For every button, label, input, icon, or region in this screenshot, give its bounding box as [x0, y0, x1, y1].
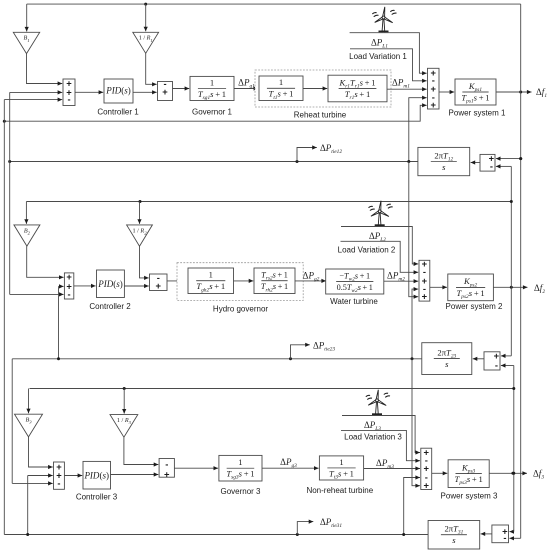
svg-text:Non-reheat turbine: Non-reheat turbine: [306, 486, 373, 495]
svg-text:Controller 3: Controller 3: [76, 493, 118, 502]
svg-text:Power system 2: Power system 2: [446, 302, 503, 311]
svg-text:-: -: [68, 288, 71, 299]
svg-text:PID(s): PID(s): [83, 470, 109, 480]
svg-text:+: +: [424, 480, 430, 491]
svg-text:-: -: [490, 160, 493, 171]
svg-text:1: 1: [238, 457, 242, 467]
svg-text:+: +: [164, 468, 170, 479]
svg-text:Power system 3: Power system 3: [441, 491, 498, 500]
svg-text:-: -: [495, 359, 498, 370]
svg-text:+: +: [431, 99, 437, 110]
svg-text:-: -: [57, 477, 60, 488]
svg-text:Controller 2: Controller 2: [89, 302, 131, 311]
svg-text:+: +: [422, 291, 428, 302]
svg-text:Reheat turbine: Reheat turbine: [294, 111, 347, 120]
svg-text:1: 1: [279, 77, 283, 87]
svg-text:Governor 1: Governor 1: [192, 107, 233, 116]
svg-text:1: 1: [210, 77, 214, 87]
svg-text:Governor 3: Governor 3: [220, 487, 261, 496]
svg-text:PID(s): PID(s): [97, 279, 123, 289]
svg-text:Power system 1: Power system 1: [449, 108, 506, 117]
svg-text:Load Variation 1: Load Variation 1: [349, 52, 407, 61]
svg-text:Load Variation 3: Load Variation 3: [344, 433, 402, 442]
svg-text:Controller 1: Controller 1: [97, 107, 139, 116]
svg-text:1: 1: [339, 457, 343, 467]
svg-text:-: -: [67, 94, 70, 105]
svg-text:1: 1: [209, 270, 213, 280]
svg-text:PID(s): PID(s): [105, 86, 131, 96]
svg-text:Hydro governor: Hydro governor: [213, 304, 268, 313]
svg-text:-: -: [503, 532, 506, 543]
svg-text:+: +: [162, 86, 168, 97]
svg-text:Water turbine: Water turbine: [330, 297, 378, 306]
svg-text:+: +: [156, 280, 162, 291]
svg-text:Load Variation 2: Load Variation 2: [338, 246, 396, 255]
